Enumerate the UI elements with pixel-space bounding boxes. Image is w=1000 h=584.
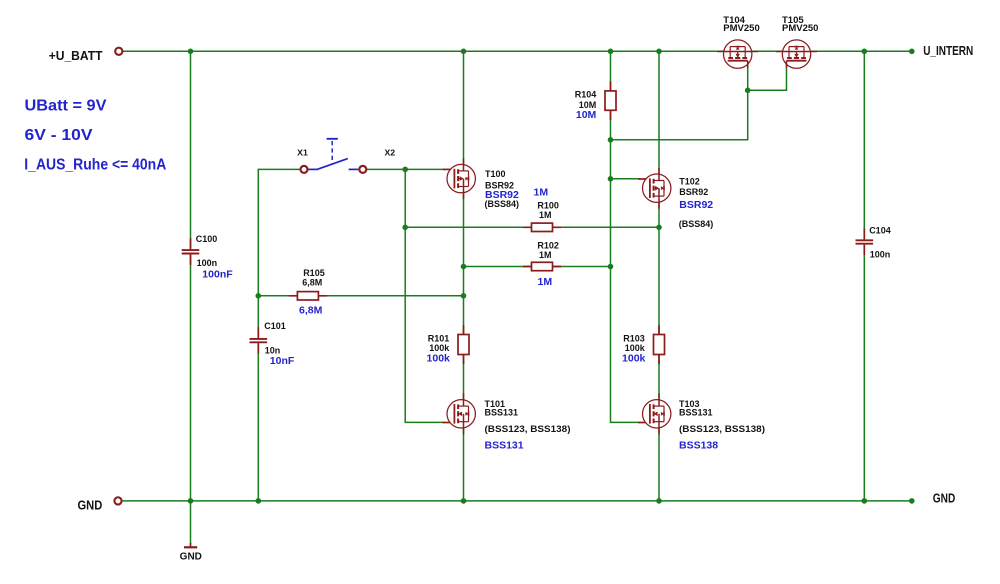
switch lever — [317, 159, 348, 170]
svg-text:X2: X2 — [384, 148, 395, 158]
svg-text:6,8M: 6,8M — [302, 277, 322, 287]
svg-text:100n: 100n — [870, 249, 891, 259]
junction GND rail / T101 source — [461, 498, 467, 504]
svg-text:BSS138: BSS138 — [679, 440, 718, 452]
junction R102 left / T100 source — [461, 264, 467, 270]
junction top rail / C100 — [188, 49, 194, 55]
resistor R101 — [463, 325, 465, 364]
wire GND stub below rail — [190, 501, 192, 544]
svg-text:(BSS123, BSS138): (BSS123, BSS138) — [485, 424, 571, 434]
junction R104 / gate wire — [608, 137, 614, 143]
junction switch output — [402, 167, 408, 173]
junction R100 left — [402, 225, 408, 231]
svg-text:100k: 100k — [427, 353, 451, 365]
junction top rail / R104 — [608, 49, 614, 55]
capacitor C100 — [181, 248, 200, 255]
svg-text:UBatt = 9V: UBatt = 9V — [25, 97, 107, 114]
svg-text:BSS131: BSS131 — [485, 408, 519, 418]
svg-text:C104: C104 — [869, 225, 891, 235]
wire R104 column down to T103 gate — [611, 51, 640, 422]
resistor R103 — [658, 325, 660, 364]
svg-text:R100: R100 — [537, 200, 559, 210]
svg-text:X1: X1 — [297, 148, 308, 158]
wire T105 gate to T104 gate — [748, 61, 787, 91]
svg-text:(BSS123, BSS138): (BSS123, BSS138) — [679, 424, 765, 434]
svg-text:(BSS84): (BSS84) — [485, 199, 520, 209]
svg-text:BSR92: BSR92 — [679, 199, 713, 211]
svg-text:I_AUS_Ruhe <= 40nA: I_AUS_Ruhe <= 40nA — [24, 157, 166, 174]
junction R105 left — [255, 293, 261, 299]
wire C104 column — [863, 51, 865, 501]
svg-text:10nF: 10nF — [270, 355, 295, 367]
svg-text:6,8M: 6,8M — [299, 304, 323, 316]
svg-text:GND: GND — [180, 551, 202, 562]
junction top rail / C104 — [862, 49, 868, 55]
wire R105 row — [258, 295, 463, 297]
terminal X2 — [359, 166, 366, 173]
wire T100/R101/T101 column — [463, 51, 465, 501]
svg-text:1M: 1M — [534, 186, 549, 198]
svg-text:C101: C101 — [264, 321, 286, 331]
svg-text:T102: T102 — [679, 176, 700, 186]
svg-text:(BSS84): (BSS84) — [679, 219, 714, 229]
wire X2 to T100 gate — [367, 168, 444, 170]
svg-text:PMV250: PMV250 — [723, 23, 759, 34]
svg-text:BSS131: BSS131 — [485, 440, 524, 452]
transistor T100 — [443, 168, 455, 170]
switch actuator dashed link — [331, 141, 333, 165]
svg-text:C100: C100 — [196, 234, 218, 244]
resistor R102 — [523, 266, 561, 268]
ground symbol GND — [190, 543, 192, 547]
wire R100 row — [405, 226, 659, 228]
svg-text:BSS131: BSS131 — [679, 408, 713, 418]
junction GND rail / C100 — [188, 498, 194, 504]
junction R102 right — [608, 264, 614, 270]
wire T104 gate to R104 node — [611, 61, 748, 140]
resistor R100 — [523, 226, 561, 228]
junction R100 right / T102 source — [656, 225, 662, 231]
capacitor C104 — [855, 239, 874, 246]
pin U_INTERN — [909, 49, 915, 55]
svg-text:100k: 100k — [622, 353, 646, 365]
pin +U_BATT — [115, 48, 122, 55]
resistor R104 — [610, 81, 612, 119]
junction R105 right — [461, 293, 467, 299]
transistor T103 — [638, 422, 650, 424]
svg-text:10M: 10M — [576, 109, 597, 121]
svg-text:R103: R103 — [623, 333, 645, 343]
junction GND rail / C101 — [255, 498, 261, 504]
svg-text:GND: GND — [933, 491, 956, 506]
pin GND right — [909, 498, 915, 504]
junction T104/T105 gates — [745, 88, 751, 94]
svg-text:R101: R101 — [428, 333, 450, 343]
switch contact blue leads — [308, 168, 317, 170]
wire X1 branch down to GND via R105/C101 column — [258, 169, 300, 501]
transistor T105 — [782, 40, 810, 68]
svg-text:T100: T100 — [485, 169, 506, 179]
wire T102 gate stub — [611, 178, 641, 180]
svg-text:GND: GND — [78, 497, 103, 512]
svg-text:BSR92: BSR92 — [679, 187, 708, 197]
wire +U_BATT top rail — [123, 50, 912, 52]
svg-text:R104: R104 — [575, 90, 597, 100]
svg-text:1M: 1M — [538, 276, 553, 288]
wire T102/R103/T103 column — [658, 51, 660, 501]
junction GND rail / T103 source — [656, 498, 662, 504]
svg-text:+U_BATT: +U_BATT — [49, 48, 103, 63]
transistor T102 — [638, 178, 650, 180]
svg-text:PMV250: PMV250 — [782, 23, 818, 34]
wire R102 row — [464, 266, 611, 268]
resistor R105 — [289, 295, 327, 297]
wire GND bottom rail — [122, 500, 912, 502]
wire C100 column — [190, 51, 192, 501]
svg-text:100nF: 100nF — [202, 268, 233, 280]
junction GND rail / C104 — [862, 498, 868, 504]
terminal X1 — [301, 166, 308, 173]
wire switch output down to T101 gate — [405, 169, 444, 422]
junction T102 gate — [608, 176, 614, 182]
junction top rail / T102 drain — [656, 49, 662, 55]
junction top rail / T100 drain — [461, 49, 467, 55]
transistor T104 — [724, 40, 752, 68]
svg-text:6V - 10V: 6V - 10V — [25, 127, 93, 144]
svg-text:1M: 1M — [539, 210, 552, 220]
transistor T101 — [443, 422, 455, 424]
svg-text:U_INTERN: U_INTERN — [923, 43, 973, 58]
svg-text:100n: 100n — [197, 258, 218, 268]
svg-text:1M: 1M — [539, 250, 552, 260]
capacitor C101 — [249, 337, 268, 344]
pin GND left — [114, 497, 121, 504]
